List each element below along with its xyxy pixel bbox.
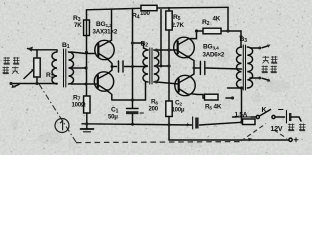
wire B1 center tap xyxy=(71,67,86,69)
resistor R3 xyxy=(84,20,90,36)
resistor R2 xyxy=(203,28,221,34)
svg-text:1.5A: 1.5A xyxy=(235,112,248,119)
wire BG3 collector up to R2 line xyxy=(189,31,197,39)
wire bias divider vertical xyxy=(168,50,170,101)
wire bias link to center tap xyxy=(160,10,162,66)
svg-text:2.7K: 2.7K xyxy=(172,22,185,29)
CJK 电池 xyxy=(288,124,295,131)
node base BG1 xyxy=(85,51,88,54)
svg-text:50μ: 50μ xyxy=(108,115,118,121)
transformer B3 primary xyxy=(237,47,242,88)
transformer B2 primary xyxy=(143,50,148,82)
svg-text:3AX31×2: 3AX31×2 xyxy=(93,29,118,36)
wire B3 primary top to R2 node xyxy=(240,31,243,47)
wire B1 top tap to BG1 base xyxy=(71,52,96,54)
capacitor output stage xyxy=(200,62,204,75)
resistor R6 xyxy=(166,101,172,140)
transformer B3 secondary xyxy=(247,47,252,88)
fuse 1.5A xyxy=(233,117,257,125)
svg-text:12V: 12V xyxy=(271,126,283,133)
wire BG4 collector up to coupling junction xyxy=(190,74,194,77)
svg-text:7K: 7K xyxy=(74,22,82,29)
wire corner rail right down to R2 line xyxy=(227,7,229,31)
transformer B3 core xyxy=(243,45,245,90)
input jack plug xyxy=(28,49,57,50)
ground xyxy=(81,128,94,130)
svg-text:B1: B1 xyxy=(62,42,70,50)
wire battery positive return line xyxy=(169,139,289,141)
svg-text:B2: B2 xyxy=(141,41,149,49)
wire BG2 emitter to B2 primary bottom xyxy=(107,83,146,101)
transistor BG1 xyxy=(95,40,114,60)
transformer B1 core xyxy=(64,49,66,87)
CJK output label xyxy=(263,56,270,63)
capacitor interstage xyxy=(119,61,124,72)
svg-text:100μ: 100μ xyxy=(172,108,185,114)
wire output bottom terminal xyxy=(250,77,258,79)
transistor BG4 xyxy=(175,75,195,96)
wire cap to B2 center xyxy=(133,66,148,68)
svg-text:C1: C1 xyxy=(111,107,119,115)
transformer B2 core xyxy=(150,48,152,84)
transformer B1 primary xyxy=(52,50,57,84)
wire top supply rail xyxy=(87,7,229,10)
wire BG3 emitter to output coupling xyxy=(188,57,200,74)
figure number circle 1 xyxy=(55,119,69,133)
svg-text:B3: B3 xyxy=(240,36,248,44)
wire BG1 collector to B2 primary top xyxy=(109,9,112,41)
svg-text:100Ω: 100Ω xyxy=(72,103,86,109)
svg-text:R7: R7 xyxy=(73,95,81,103)
svg-text:R4: R4 xyxy=(132,13,140,21)
node center tap B1 xyxy=(84,66,87,69)
wire B3 primary bottom down to supply junction xyxy=(228,88,242,122)
wire output top terminal xyxy=(250,47,258,49)
potentiometer R1 xyxy=(24,50,40,84)
wire B2 sec top to BG3 base xyxy=(157,49,179,51)
switch K xyxy=(256,110,275,119)
wire BG2 collector up to coupling line xyxy=(109,67,113,74)
wire rail branch to B2 primary top xyxy=(133,43,149,50)
battery cell xyxy=(275,116,284,118)
wire B2 sec center tap xyxy=(157,65,170,67)
svg-text:R5: R5 xyxy=(173,14,181,22)
wire vertical from rail to B2 area xyxy=(132,9,134,101)
chassis boundary dashed xyxy=(39,84,287,143)
wire R2 line xyxy=(196,30,241,32)
capacitor C1 xyxy=(126,100,138,124)
input jack plug bottom xyxy=(14,85,20,87)
resistor R5 xyxy=(166,8,172,50)
transistor BG3 xyxy=(174,37,195,58)
wire ground bus xyxy=(82,124,192,125)
transistor BG2 xyxy=(94,72,113,92)
wire input bottom line xyxy=(11,83,57,85)
svg-text:R2: R2 xyxy=(202,19,210,27)
node BG2 base crossing xyxy=(85,83,88,86)
transformer B2 secondary xyxy=(154,50,159,82)
wire B1 bottom tap to BG2 base xyxy=(71,83,98,85)
svg-text:K: K xyxy=(262,107,267,114)
svg-text:R5 4K: R5 4K xyxy=(205,104,222,112)
wire BG4 emitter to R8 xyxy=(191,94,203,98)
resistor R4 xyxy=(141,5,157,10)
wire B2 sec bottom to BG4 base xyxy=(157,82,179,84)
capacitor C2 electrolytic xyxy=(186,117,199,130)
resistor R8 4K xyxy=(203,94,233,100)
wire BG1 emitter down to coupling line xyxy=(108,59,117,67)
CJK input label 线路输入 xyxy=(4,57,11,64)
resistor R7 xyxy=(84,96,90,129)
wire bias line left (rail to R7) xyxy=(86,10,88,96)
transformer B1 secondary xyxy=(69,52,74,84)
